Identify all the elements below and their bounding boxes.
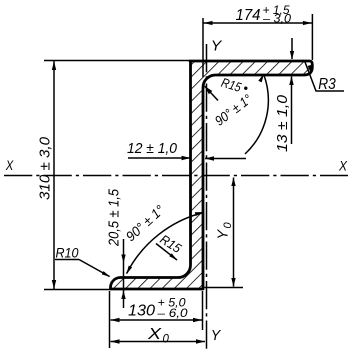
angle arc 90°±1° top xyxy=(245,74,268,154)
Z-profile section: hatched fill xyxy=(111,61,313,289)
svg-text:Y: Y xyxy=(216,229,232,240)
svg-text:Y: Y xyxy=(211,38,223,55)
dimension 174 extension right xyxy=(311,14,313,60)
svg-text:12 ± 1,0: 12 ± 1,0 xyxy=(127,140,178,157)
X axis (dash-dot centerline) xyxy=(4,175,348,177)
svg-text:0: 0 xyxy=(222,222,234,229)
dimension 174 +1,5/-3,0 line xyxy=(204,22,312,24)
Y axis (dash-dot centerline) xyxy=(206,44,208,349)
dimension 12 line left segment xyxy=(128,157,190,159)
dimension Y0 extension xyxy=(205,287,244,289)
dimension Y0 line xyxy=(233,178,235,287)
svg-text:174: 174 xyxy=(236,7,261,24)
dimension 130 extension left xyxy=(109,291,111,348)
dimension 12 line right segment xyxy=(205,158,246,160)
dimension 310±3,0 line xyxy=(53,61,55,290)
svg-text:R10: R10 xyxy=(56,245,79,261)
dimension 310±3,0 extension line bottom xyxy=(44,289,110,291)
dimension 13±1,0 upper line xyxy=(291,38,293,59)
svg-text:X: X xyxy=(5,157,14,173)
dimension 310±3,0 extension line top xyxy=(44,60,190,62)
leader R15 top xyxy=(205,86,219,101)
angle arc 90°±1° bottom xyxy=(127,213,204,274)
svg-text:X: X xyxy=(338,158,347,174)
leader R3 xyxy=(305,62,344,91)
leader R15 bottom xyxy=(156,244,177,261)
dimension 130 +5,0/-6,0 line xyxy=(111,319,203,321)
dimension X0 line xyxy=(111,341,206,343)
dimension 130 extension right xyxy=(202,291,204,330)
leader R10 xyxy=(55,259,79,261)
svg-text:– 3,0: – 3,0 xyxy=(262,12,291,26)
svg-text:0: 0 xyxy=(163,334,170,346)
svg-text:R3: R3 xyxy=(318,76,336,93)
dimension 20,5±1,5 line xyxy=(123,239,125,308)
svg-text:Y: Y xyxy=(211,327,221,344)
svg-text:– 6,0: – 6,0 xyxy=(156,306,187,320)
dimension 174 extension left xyxy=(202,18,204,77)
svg-text:130: 130 xyxy=(128,303,155,320)
svg-text:310 ± 3,0: 310 ± 3,0 xyxy=(37,136,54,200)
dimension 13±1,0 lower line xyxy=(291,77,293,145)
svg-text:20,5 ± 1,5: 20,5 ± 1,5 xyxy=(106,188,123,246)
svg-text:X: X xyxy=(147,326,163,343)
svg-text:13 ± 1,0: 13 ± 1,0 xyxy=(274,94,291,152)
Z-profile outline xyxy=(111,61,313,289)
